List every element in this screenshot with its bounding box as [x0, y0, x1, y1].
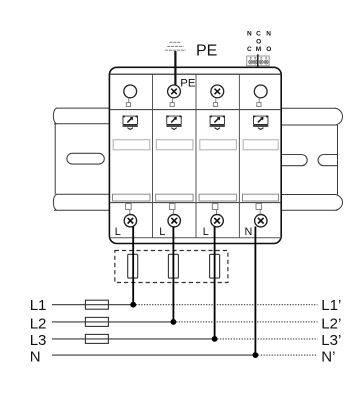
svg-text:O: O: [256, 38, 261, 45]
svg-text:L3’: L3’: [321, 332, 341, 349]
svg-text:N’: N’: [321, 349, 335, 366]
svg-text:L2’: L2’: [321, 315, 341, 332]
svg-text:C: C: [247, 46, 252, 53]
svg-text:L3: L3: [30, 332, 47, 349]
svg-text:L1’: L1’: [321, 297, 341, 314]
svg-text:L: L: [203, 226, 209, 238]
svg-text:L: L: [159, 226, 165, 238]
svg-text:PE: PE: [180, 78, 196, 90]
svg-text:C: C: [256, 30, 261, 37]
svg-text:N: N: [30, 349, 41, 366]
svg-text:PE: PE: [196, 43, 217, 60]
svg-text:L2: L2: [30, 315, 47, 332]
svg-text:M: M: [256, 46, 261, 53]
svg-text:N: N: [245, 226, 253, 238]
svg-text:L1: L1: [30, 297, 47, 314]
svg-text:N: N: [247, 30, 252, 37]
svg-text:O: O: [266, 46, 271, 53]
svg-text:L: L: [115, 226, 121, 238]
svg-text:N: N: [266, 30, 271, 37]
